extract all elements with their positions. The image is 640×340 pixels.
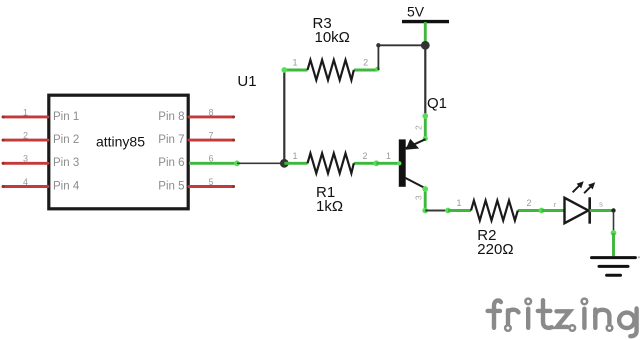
svg-text:1: 1: [292, 151, 297, 161]
svg-text:Pin 3: Pin 3: [53, 157, 79, 169]
svg-text:Q1: Q1: [427, 95, 447, 112]
svg-text:1: 1: [23, 107, 28, 117]
svg-text:Pin 1: Pin 1: [53, 111, 79, 123]
svg-text:2: 2: [362, 151, 367, 161]
svg-text:2: 2: [414, 125, 424, 130]
svg-text:Pin 7: Pin 7: [158, 134, 184, 146]
svg-text:s: s: [599, 200, 603, 209]
svg-text:2: 2: [363, 58, 368, 68]
svg-text:4: 4: [23, 177, 28, 187]
svg-text:8: 8: [208, 107, 213, 117]
svg-text:2: 2: [23, 131, 28, 141]
svg-text:5: 5: [208, 177, 213, 187]
svg-text:2: 2: [526, 198, 531, 208]
svg-text:Pin 2: Pin 2: [53, 134, 79, 146]
svg-text:3: 3: [414, 195, 424, 200]
svg-text:3: 3: [23, 154, 28, 164]
svg-text:1: 1: [292, 58, 297, 68]
svg-text:Pin 8: Pin 8: [158, 111, 184, 123]
svg-text:220Ω: 220Ω: [477, 241, 513, 258]
svg-text:5V: 5V: [407, 4, 425, 20]
svg-text:1: 1: [456, 198, 461, 208]
svg-text:Pin 4: Pin 4: [53, 180, 80, 192]
svg-text:attiny85: attiny85: [96, 134, 145, 150]
svg-text:Pin 6: Pin 6: [158, 157, 184, 169]
svg-text:1: 1: [386, 151, 391, 161]
svg-text:10kΩ: 10kΩ: [315, 29, 350, 46]
svg-text:Pin 5: Pin 5: [158, 180, 184, 192]
svg-text:7: 7: [208, 131, 213, 141]
svg-text:U1: U1: [237, 73, 256, 90]
svg-text:1kΩ: 1kΩ: [316, 198, 343, 215]
